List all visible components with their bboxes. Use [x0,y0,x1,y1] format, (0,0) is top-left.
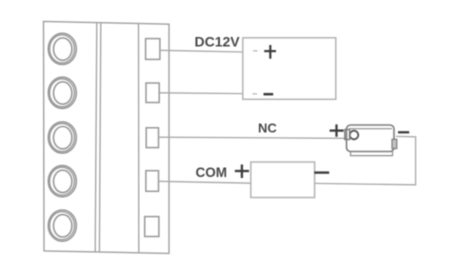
lock body [347,125,395,152]
wire COM [159,181,251,183]
wire lock to corner and return [314,136,416,184]
COM plus sign [235,165,249,179]
svg-text:COM: COM [196,165,228,180]
svg-text:DC12V: DC12V [195,33,241,49]
terminal circle 4 [48,166,76,197]
lock bottom lip [351,152,393,156]
lock right tab [392,139,397,148]
connector pin square 2 [146,83,159,103]
power supply box [243,38,336,100]
wire NC [159,137,347,138]
terminal block divider line 3 [138,24,140,253]
power box plus sign [264,45,276,59]
COM minus sign [314,171,329,173]
power box - stub [253,93,258,95]
svg-text:NC: NC [258,121,277,136]
connector pin square 1 [146,39,160,60]
power box + stub [253,50,258,52]
COM relay box [251,162,315,198]
terminal circle 1 [48,33,76,64]
lock top inner line [349,128,392,130]
connector pin square 3 [146,128,158,148]
connector pin square 5 [145,217,159,237]
terminal circle 3 [48,122,76,153]
wire DC12V + [160,50,243,52]
terminal circle 2 [48,77,76,108]
lock minus sign [398,131,409,133]
terminal block divider line 2 [99,23,100,252]
lock left tab [345,130,350,140]
terminal block divider line 1 [95,23,97,252]
terminal block outline [44,21,170,253]
wire DC12V - [160,92,243,95]
lock keyhole circle [350,131,359,140]
power box minus sign [264,93,274,96]
NC plus sign [330,124,344,136]
connector pin square 4 [146,171,159,192]
terminal circle 5 [48,210,76,241]
